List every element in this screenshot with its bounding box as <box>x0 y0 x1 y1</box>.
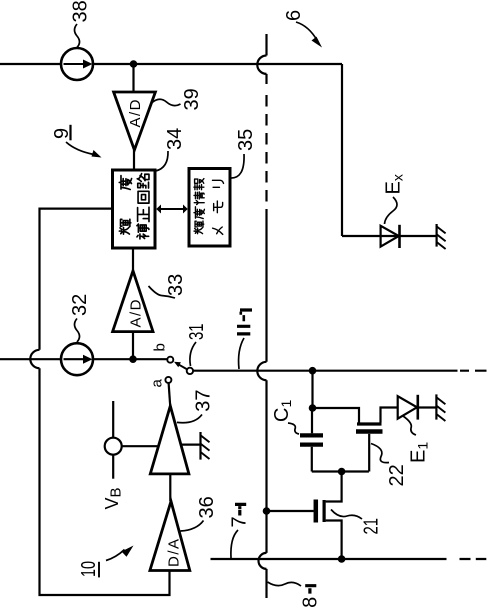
wire: node to transistor 22 left lead <box>313 408 360 423</box>
transistor 22 <box>356 408 397 432</box>
wire: transistor 21 to scan line 7-1 <box>326 521 342 560</box>
label 7-1 <box>229 504 251 558</box>
node: C1 top / transistor 22 <box>309 404 317 412</box>
label 33 <box>149 274 188 298</box>
svg-text:31: 31 <box>186 324 208 341</box>
wire: A/D 39 to correction circuit 34 <box>133 150 135 170</box>
current source 38 <box>61 48 93 80</box>
label 36 <box>181 496 219 531</box>
label 21 <box>331 510 383 535</box>
label 35 <box>230 129 257 178</box>
label 6 <box>283 10 322 48</box>
label 9 <box>51 125 102 158</box>
wire: Ex to ground <box>400 235 437 237</box>
8-1 hop over scan line 7-1 <box>259 553 267 569</box>
current source 32 <box>61 343 93 375</box>
switch 31 contact b <box>167 357 173 363</box>
wire: amplifier 37 to ground <box>181 444 201 446</box>
svg-text:35: 35 <box>235 129 257 151</box>
label 22 <box>371 444 408 487</box>
wire: gate line 8-1 to transistor 21 gate <box>267 510 314 512</box>
svg-text:37: 37 <box>193 390 215 412</box>
svg-text:22: 22 <box>386 464 408 486</box>
svg-text:a: a <box>149 379 166 388</box>
8-1 stub above line 6 <box>265 34 267 56</box>
transistor 21 <box>316 500 324 523</box>
svg-text:10: 10 <box>78 561 100 577</box>
8-1 hop over signal line 11-1 <box>257 362 266 380</box>
label 38 <box>70 0 92 47</box>
svg-text:6: 6 <box>283 10 305 21</box>
wire: feedback from box 34 (left segment) <box>40 209 113 350</box>
ground (Ex) <box>437 224 446 249</box>
wire: 11-1 down to storage node <box>311 371 313 408</box>
8-1 short solid below hop <box>265 74 267 84</box>
A/D converter 33 <box>113 271 153 332</box>
scan line 7-1 <box>211 558 487 560</box>
amplifier 37 <box>150 406 189 474</box>
node: junction A/D 33 on readout line <box>129 355 137 363</box>
luminance information memory box 35 <box>189 169 230 247</box>
wire: VB to amplifier 37 <box>122 445 159 447</box>
EL element E1 <box>398 395 418 420</box>
svg-text:8: 8 <box>300 597 322 608</box>
node: gate tap on 8-1 <box>263 507 271 515</box>
label 10 <box>78 546 134 578</box>
label 31 <box>186 324 208 367</box>
label 8-1 <box>268 582 322 608</box>
label Ex <box>383 174 406 224</box>
storage node wire <box>312 470 369 472</box>
label 39 <box>152 88 204 110</box>
label 37 <box>177 390 215 423</box>
gate line 8-1 (vertical bus) <box>257 34 266 598</box>
diode Ex <box>381 225 400 248</box>
ground (amplifier 37) <box>201 432 210 460</box>
signal line 11-1 <box>193 370 486 372</box>
node: junction of A/D 39 input on line 6 <box>130 60 138 68</box>
8-1 dashed section <box>265 95 267 216</box>
wire: amplifier 37 to D/A 36 <box>169 474 171 501</box>
D/A converter 36 <box>150 501 190 570</box>
label E1 <box>403 416 431 463</box>
label 34 <box>156 128 187 171</box>
wire: correction circuit 34 to A/D 33 <box>132 248 134 271</box>
wire: line 6 to A/D 39 <box>132 64 134 92</box>
A/D converter 39 <box>114 92 156 150</box>
label C1 <box>271 400 299 434</box>
luminance correction circuit box 34 <box>113 170 156 248</box>
wire hop: feedback over readout line <box>30 350 39 368</box>
label 11-1 <box>237 310 252 369</box>
node: storage to transistor 21 <box>338 468 346 476</box>
capacitor C1 <box>300 408 323 472</box>
svg-text:34: 34 <box>164 128 186 150</box>
8-1 bottom stub <box>265 569 267 598</box>
8-1 hop over line 6 <box>257 56 266 74</box>
readout line (left) <box>0 358 167 360</box>
wire: transistor 22 gate down to storage wire <box>368 434 370 472</box>
svg-text:A/D: A/D <box>127 298 144 328</box>
svg-text:32: 32 <box>69 294 91 316</box>
svg-text:A/D: A/D <box>127 98 144 128</box>
svg-text:38: 38 <box>70 0 92 22</box>
wire: A/D 33 to readout line <box>132 332 134 360</box>
node: transistor 21 on scan line 7-1 <box>338 555 346 563</box>
svg-text:39: 39 <box>181 88 203 110</box>
node: 11-1 tap to pixel <box>309 367 317 375</box>
wire: contact a to amplifier 37 <box>169 383 171 406</box>
bidirectional bus between 34 and 35 <box>156 205 187 214</box>
svg-text:36: 36 <box>196 496 218 518</box>
svg-text:21: 21 <box>361 518 383 535</box>
ground (E1) <box>436 394 445 421</box>
wire: feedback down to D/A 36 <box>40 368 170 595</box>
wire: storage node down to transistor 21 <box>326 472 342 502</box>
label 32 <box>69 294 91 342</box>
wire 6 (top supply line) <box>0 64 397 236</box>
bias terminal VB <box>105 401 122 479</box>
svg-text:b: b <box>152 343 169 351</box>
8-1 solid section above 11-1 <box>265 216 267 362</box>
8-1 main solid section <box>265 380 267 553</box>
svg-text:7: 7 <box>229 516 251 527</box>
wire: E1 to ground <box>418 406 436 408</box>
svg-text:D/A: D/A <box>166 537 183 567</box>
switch 31 pole and blade <box>174 362 193 374</box>
svg-text:33: 33 <box>165 274 187 296</box>
switch 31 contact a <box>165 377 171 383</box>
